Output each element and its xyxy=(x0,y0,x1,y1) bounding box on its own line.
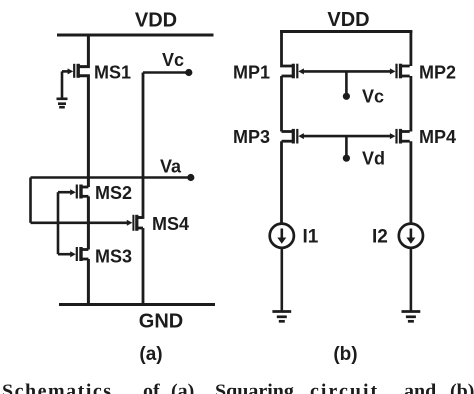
VDD rail (circuit b) xyxy=(280,30,412,33)
transistor MS4 xyxy=(127,215,143,231)
current source I1 xyxy=(270,224,294,248)
svg-text:Schematics: Schematics xyxy=(2,381,113,394)
wire: Vc stub (circuit b) xyxy=(345,71,348,95)
wire: I2 to ground xyxy=(410,248,413,311)
svg-text:I1: I1 xyxy=(303,227,319,248)
transistor MS3 xyxy=(58,247,88,261)
svg-text:MP3: MP3 xyxy=(233,127,270,147)
node dot Vd (circuit b) xyxy=(343,155,350,162)
svg-text:MP4: MP4 xyxy=(419,127,456,147)
svg-text:VDD: VDD xyxy=(135,10,177,32)
wire: MP3 source down to I1 xyxy=(280,141,283,223)
wire: Va left loop down xyxy=(29,178,32,223)
wire: MS2 source to MS3 drain xyxy=(87,196,90,249)
svg-text:and: and xyxy=(404,381,436,394)
svg-text:(b): (b) xyxy=(450,381,474,394)
svg-text:MS4: MS4 xyxy=(152,214,189,234)
wire: Vc node horizontal xyxy=(143,71,189,74)
svg-text:MP1: MP1 xyxy=(233,63,270,83)
svg-text:MS3: MS3 xyxy=(95,247,132,267)
wire: Vc down to MS4 drain xyxy=(137,73,143,218)
svg-text:Squaring: Squaring xyxy=(215,381,294,394)
wire: loop horizontal to MS4 gate xyxy=(31,222,128,225)
wire: VDD rail down to MP1 drain xyxy=(282,32,294,67)
svg-text:GND: GND xyxy=(139,311,183,333)
svg-text:Vc: Vc xyxy=(362,87,384,107)
wire: MP1 source to MP3 drain xyxy=(280,76,283,132)
wire: MS2/MS3 gate chain xyxy=(57,192,60,254)
ground symbol at MS1 gate xyxy=(57,99,68,107)
caption fragment (clipped at bottom edge) xyxy=(2,381,474,394)
wire: MP4 source down to I2 xyxy=(409,141,412,223)
wire: VDD rail to MS1 drain xyxy=(78,35,88,67)
ground symbol below I2 xyxy=(402,312,421,322)
wire: MS1 source down main line xyxy=(78,76,88,187)
svg-text:MS1: MS1 xyxy=(94,63,131,83)
wire: MP3 gate to MP4 gate xyxy=(303,135,390,138)
ground symbol below I1 xyxy=(272,312,291,322)
VDD rail (circuit a) xyxy=(57,34,214,37)
wire: Va node horizontal xyxy=(31,176,191,179)
wire: MS3 source to GND rail xyxy=(87,259,90,305)
wire: MS4 source to GND rail xyxy=(142,228,145,305)
svg-text:(b): (b) xyxy=(333,344,357,365)
GND rail (circuit a) xyxy=(59,303,215,306)
svg-text:Va: Va xyxy=(160,157,182,177)
svg-text:Vc: Vc xyxy=(162,50,184,70)
current source I2 xyxy=(399,224,423,248)
transistor MP1 xyxy=(282,64,304,79)
wire: MS1 gate to ground xyxy=(61,71,64,98)
svg-text:I2: I2 xyxy=(372,227,388,248)
svg-text:Vd: Vd xyxy=(362,149,385,169)
transistor MP4 xyxy=(390,129,410,144)
transistor MP2 xyxy=(390,64,410,79)
terminal dot Vc (circuit a) xyxy=(185,69,192,76)
wire: VDD rail down to MP2 drain xyxy=(409,32,412,67)
transistor MS2 xyxy=(58,185,88,199)
svg-text:(a): (a) xyxy=(139,344,162,365)
svg-text:circuit: circuit xyxy=(310,381,379,394)
svg-text:(a): (a) xyxy=(171,381,194,394)
svg-text:VDD: VDD xyxy=(327,9,369,31)
transistor MP3 xyxy=(282,129,304,144)
wire: MP2 source to MP4 drain xyxy=(409,76,412,132)
wire: Vd stub (circuit b) xyxy=(345,136,348,157)
svg-text:of: of xyxy=(143,381,160,394)
wire: I1 to ground xyxy=(280,248,283,311)
svg-text:MP2: MP2 xyxy=(419,63,456,83)
terminal dot Va (circuit a) xyxy=(187,174,194,181)
wire: MP1 gate to MP2 gate xyxy=(303,70,390,73)
transistor MS1 xyxy=(62,64,78,78)
node dot Vc (circuit b) xyxy=(343,93,350,100)
svg-text:MS2: MS2 xyxy=(95,183,132,203)
